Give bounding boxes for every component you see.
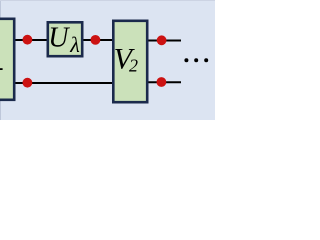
- gate V2: [113, 21, 147, 102]
- node top-right (red dot): [157, 35, 167, 45]
- gate V1 subscript remnant: [0, 68, 3, 70]
- cropped frame edge left: [0, 0, 1, 120]
- wire top segment 1 (left gate to U_lambda): [14, 39, 48, 41]
- gate V1 (cut off at left edge): [0, 19, 14, 100]
- wire bottom segment 1 (left gate to V2): [14, 82, 113, 84]
- gate U_lambda: [48, 22, 82, 56]
- node bottom-right (red dot): [157, 77, 167, 87]
- wire bottom segment 2 (V2 to right): [147, 81, 181, 83]
- node top-left (red dot): [23, 35, 33, 45]
- svg-text:λ: λ: [69, 32, 80, 57]
- wire top segment 3 (V2 to right): [147, 40, 181, 42]
- ellipsis dot 2: [194, 58, 198, 62]
- ellipsis dot 1: [184, 58, 188, 62]
- svg-text:U: U: [48, 23, 70, 54]
- cropped frame edge top: [0, 0, 215, 1]
- wire top segment 2 (U_lambda to V2): [82, 39, 113, 41]
- node bottom-left (red dot): [23, 78, 33, 88]
- background plate: [0, 0, 215, 120]
- node top-middle (red dot): [91, 35, 101, 45]
- ellipsis dot 3: [204, 58, 208, 62]
- svg-text:2: 2: [129, 56, 138, 76]
